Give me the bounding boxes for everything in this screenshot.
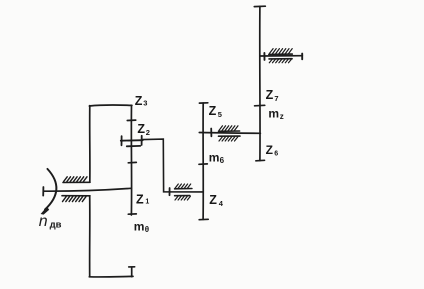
- svg-text:Z: Z: [135, 94, 143, 108]
- label m12: [134, 220, 149, 235]
- gear line left tick: [263, 53, 265, 60]
- svg-text:m: m: [268, 107, 279, 121]
- bearing axis lower line: [219, 135, 241, 137]
- input shaft: [43, 188, 131, 191]
- section trace to shaft II: [143, 139, 203, 192]
- svg-text:Z: Z: [137, 122, 145, 136]
- svg-text:θ: θ: [145, 225, 149, 234]
- shaft II: [202, 103, 204, 219]
- svg-text:1: 1: [145, 199, 149, 206]
- bearing trace lower line: [175, 195, 190, 197]
- shaft III: [259, 6, 261, 160]
- svg-text:6: 6: [220, 156, 225, 165]
- svg-text:Z: Z: [266, 143, 273, 157]
- bearing trace upper line: [175, 188, 192, 190]
- svg-text:2: 2: [146, 128, 150, 137]
- svg-text:5: 5: [218, 110, 222, 119]
- svg-text:m: m: [209, 151, 220, 165]
- label Z3: [135, 94, 148, 108]
- svg-text:3: 3: [143, 99, 147, 108]
- label m34: [268, 107, 283, 122]
- shaft I: [130, 106, 132, 216]
- shaft I bottom cap: [128, 213, 136, 215]
- bearing axis upper line: [219, 130, 240, 132]
- label Z6: [266, 143, 279, 158]
- svg-text:Z: Z: [209, 104, 217, 118]
- bearing input lower line: [62, 195, 90, 197]
- rotation arc n_dv: [45, 169, 56, 210]
- rotation arrowhead: [41, 207, 50, 215]
- svg-text:n: n: [39, 213, 48, 230]
- shaft I lower gear tick: [128, 161, 136, 163]
- gear Z2 under bar: [127, 145, 141, 147]
- shaft III top cap: [254, 5, 265, 7]
- label Z4: [209, 193, 224, 208]
- shaft III bottom cap: [256, 159, 265, 162]
- label n_dv: [39, 213, 62, 231]
- svg-text:z: z: [280, 112, 284, 121]
- bearing input upper hatch: [64, 177, 88, 182]
- svg-text:6: 6: [274, 151, 278, 158]
- frame lower-left vertical: [89, 196, 91, 276]
- shaft II coupling tick: [169, 188, 171, 195]
- bearing axis lower hatch: [219, 137, 238, 141]
- label m56: [209, 151, 225, 166]
- bearing III lower line: [269, 58, 292, 60]
- svg-text:Z: Z: [266, 88, 274, 102]
- frame bottom line: [89, 275, 133, 278]
- shaft II bottom cap: [199, 218, 208, 220]
- label Z1: [136, 193, 149, 207]
- bearing input upper line: [63, 181, 90, 183]
- frame top line: [89, 105, 131, 106]
- bearing trace lower hatch: [175, 196, 190, 200]
- svg-text:Z: Z: [209, 193, 217, 207]
- gear Z2 bar: [121, 139, 143, 142]
- svg-text:m: m: [134, 220, 145, 234]
- bearing III lower hatch: [269, 59, 291, 63]
- gear Z3 tick: [127, 119, 135, 121]
- label Z5: [209, 104, 222, 119]
- gear line right tick: [301, 54, 303, 60]
- gear tick shaft III: [255, 104, 265, 107]
- bearing III upper hatch: [269, 49, 292, 54]
- bearing trace upper hatch: [175, 184, 191, 188]
- label Z2: [137, 122, 150, 137]
- bearing input lower hatch: [63, 197, 87, 202]
- axis coupling tick: [210, 129, 212, 137]
- svg-text:Z: Z: [136, 193, 144, 207]
- axis line shaft II to III: [199, 132, 260, 135]
- gear Z2 right tick: [141, 136, 143, 145]
- shaft III gear line: [260, 55, 302, 57]
- label Z7: [266, 88, 279, 103]
- gear Z2 left tick: [121, 136, 123, 145]
- bearing III upper line: [269, 53, 293, 55]
- frame bottom-right post: [131, 267, 133, 277]
- shaft II top cap: [199, 102, 207, 104]
- svg-text:дв: дв: [50, 220, 62, 231]
- frame post cap: [129, 266, 135, 268]
- svg-text:7: 7: [274, 94, 278, 103]
- frame upper-left vertical: [89, 106, 91, 183]
- bearing axis upper hatch: [219, 126, 238, 131]
- input shaft end tick: [42, 187, 44, 196]
- gear Z4 tick: [199, 163, 207, 165]
